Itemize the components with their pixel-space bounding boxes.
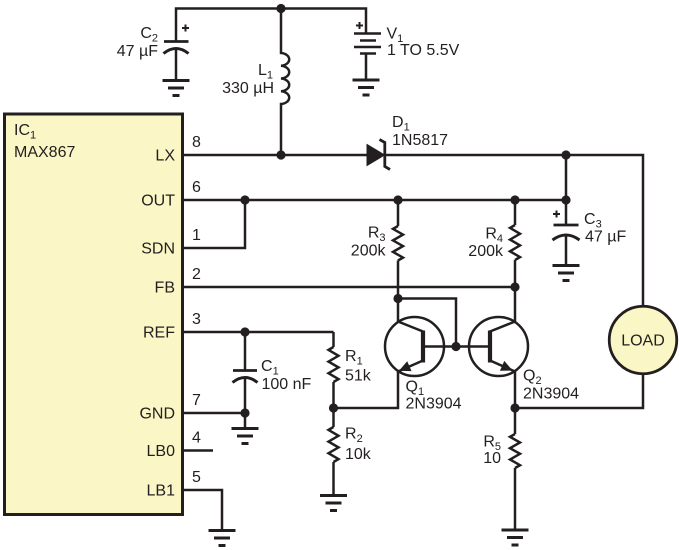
svg-text:2N3904: 2N3904 [406, 396, 462, 413]
ground under C1 [232, 427, 259, 430]
wire C1 bottom to ground [244, 413, 247, 428]
wire load return [515, 374, 643, 408]
ground under LB1 [209, 529, 236, 532]
svg-text:2N3904: 2N3904 [523, 386, 579, 403]
node D1 cathode / C3 top junction [561, 150, 570, 159]
resistor R4 [514, 200, 517, 225]
capacitor C1 [244, 332, 247, 371]
wire FB rail [183, 286, 515, 289]
ground under C2 [163, 79, 190, 82]
svg-text:6: 6 [192, 179, 201, 196]
svg-text:C1: C1 [261, 358, 279, 378]
svg-text:1N5817: 1N5817 [392, 132, 448, 149]
svg-text:FB: FB [155, 280, 175, 297]
svg-text:8: 8 [192, 134, 201, 151]
svg-text:LB1: LB1 [147, 483, 176, 500]
svg-text:330 µH: 330 µH [222, 80, 274, 97]
resistor R3 [397, 200, 400, 226]
svg-text:SDN: SDN [141, 241, 175, 258]
svg-text:2: 2 [192, 266, 201, 283]
svg-text:47 µF: 47 µF [585, 229, 626, 246]
resistor R1 [332, 332, 335, 347]
node SDN-OUT junction [240, 195, 249, 204]
wire SDN tie to OUT [183, 200, 245, 248]
capacitor C3 [565, 200, 568, 225]
capacitor C2 plus sign [182, 25, 189, 32]
wire LX rail from pin 8 to load drop [183, 155, 643, 306]
svg-text:5: 5 [192, 469, 201, 486]
inductor L1 [281, 9, 289, 156]
capacitor C2 [164, 40, 189, 43]
node REF-C1 junction [240, 327, 249, 336]
resistor R2 [332, 408, 335, 427]
svg-text:R3: R3 [368, 225, 386, 245]
node L1-LX junction [276, 150, 285, 159]
wire Q1 emitter to R1/R2 junction [334, 370, 399, 408]
svg-text:10: 10 [483, 450, 501, 467]
ground under C3 [553, 264, 580, 267]
ground under V1 [353, 79, 380, 82]
svg-text:R1: R1 [345, 348, 363, 368]
svg-text:1 TO 5.5V: 1 TO 5.5V [387, 42, 460, 59]
svg-text:REF: REF [143, 325, 175, 342]
node R1-R2-Q1 emitter junction [329, 403, 338, 412]
svg-text:Q2: Q2 [523, 368, 542, 388]
svg-text:1: 1 [192, 227, 201, 244]
load symbol [609, 306, 677, 374]
svg-text:3: 3 [192, 311, 201, 328]
svg-text:LOAD: LOAD [621, 333, 665, 350]
resistor R5 [514, 408, 517, 434]
diode D1 1N5817 [367, 145, 385, 166]
wire C3 top drop [565, 155, 568, 200]
node R3 to base-tie junction [393, 294, 402, 303]
svg-text:MAX867: MAX867 [14, 144, 75, 161]
transistor Q2 2N3904 [469, 317, 528, 376]
svg-text:D1: D1 [392, 114, 410, 134]
svg-text:200k: 200k [351, 243, 387, 260]
wire base link between Q1 and Q2 [423, 345, 489, 348]
ground under R5 [502, 529, 529, 532]
wire LB0 stub [183, 449, 213, 452]
svg-text:L1: L1 [258, 62, 273, 82]
svg-text:10k: 10k [345, 446, 372, 463]
transistor Q1 2N3904 [385, 317, 444, 376]
node GND-C1 junction [240, 408, 249, 417]
node OUT-R4 junction [510, 195, 519, 204]
ground under R2 [320, 494, 347, 497]
node top rail junction [276, 4, 285, 13]
wire top supply rail with drops to C2 and V1 [176, 9, 366, 42]
node Q2 emitter / R5 / load return junction [510, 403, 519, 412]
wire OUT rail [183, 199, 566, 202]
node base tie junction [451, 342, 460, 351]
wire base tie from R3 to bases [398, 299, 456, 347]
svg-text:51k: 51k [345, 368, 372, 385]
battery V1 [354, 32, 381, 35]
wire Q2 emitter down to junction [514, 370, 517, 408]
op-amp IC U1 MAX867 body [5, 114, 183, 515]
svg-text:R2: R2 [345, 426, 363, 446]
svg-text:LX: LX [155, 148, 175, 165]
svg-text:OUT: OUT [141, 193, 175, 210]
svg-text:C2: C2 [140, 25, 158, 45]
node OUT-C3 junction [561, 195, 570, 204]
svg-text:LB0: LB0 [147, 443, 176, 460]
node FB-R4 junction [510, 282, 519, 291]
wire REF rail to R1 [183, 331, 334, 334]
svg-text:GND: GND [139, 406, 175, 423]
wire GND pin stub [183, 412, 245, 415]
svg-text:47 µF: 47 µF [117, 43, 158, 60]
svg-text:7: 7 [192, 392, 201, 409]
wire LB1 to ground [183, 490, 222, 530]
battery V1 plus sign [356, 22, 363, 29]
node OUT-R3 junction [393, 195, 402, 204]
capacitor C3 plus sign [553, 211, 560, 218]
svg-text:100 nF: 100 nF [262, 376, 312, 393]
svg-text:200k: 200k [468, 243, 504, 260]
svg-text:4: 4 [192, 430, 201, 447]
